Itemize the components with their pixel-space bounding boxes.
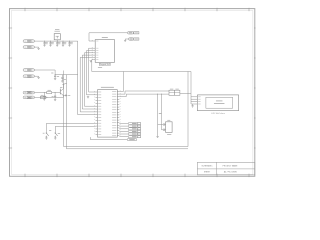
voltage regulator U1 xyxy=(54,29,60,41)
flag F1 xyxy=(119,122,140,124)
svg-text:SHEET: SHEET xyxy=(204,172,211,174)
keypad pins xyxy=(92,40,99,60)
flag F3 xyxy=(119,128,140,130)
crystal net verticals xyxy=(157,94,162,136)
svg-text:PROJECT NAME: PROJECT NAME xyxy=(223,164,239,167)
connector flag P1 VCC xyxy=(23,40,36,43)
ground for crystal xyxy=(156,135,158,137)
svg-text:SCHEMATIC: SCHEMATIC xyxy=(202,164,214,167)
wire keypad pin1 to flag G1 xyxy=(89,33,127,41)
svg-text:A4 / PIC DEMO: A4 / PIC DEMO xyxy=(224,171,238,174)
MCU U2 xyxy=(98,87,118,137)
connector flag P4 xyxy=(23,75,39,79)
resistor R2 xyxy=(40,95,63,99)
flag F4 xyxy=(119,130,140,132)
flag F7 xyxy=(90,137,136,141)
wire resistors to LCD net xyxy=(180,92,191,94)
capacitor C7 xyxy=(52,92,57,101)
routing loop wires xyxy=(64,67,192,149)
switch S1 xyxy=(43,123,96,139)
resistor R3 xyxy=(169,89,174,96)
power rail VCC xyxy=(36,41,77,115)
connector flag G1 xyxy=(127,32,139,34)
keypad to MCU bus wires xyxy=(78,48,96,115)
flag F5 xyxy=(119,133,140,135)
MCU left pins xyxy=(94,91,101,135)
connector flag P2 GND xyxy=(23,46,39,50)
connector flag P5 xyxy=(23,91,44,94)
resistor R4 xyxy=(174,89,180,96)
keypad label xyxy=(99,63,110,66)
VCC arrow for Q1 xyxy=(62,83,67,89)
MCU right pins xyxy=(112,91,121,137)
keypad connector J1 xyxy=(95,37,114,62)
gnd near MCU left xyxy=(87,96,89,98)
LCD pins xyxy=(191,96,201,104)
ground at LCD xyxy=(191,104,193,107)
output stub of Q1 xyxy=(63,95,70,97)
flag F2 xyxy=(119,125,140,127)
transistor Q1 xyxy=(60,87,63,97)
connector flag G2 with gnd arrow xyxy=(124,38,139,42)
capacitor C4 xyxy=(62,41,67,47)
connector flag P6 xyxy=(23,96,46,99)
wire to resistors xyxy=(119,91,169,97)
wire MCU pin1 up xyxy=(119,72,123,92)
capacitor C9 xyxy=(162,129,166,131)
connector flag P3 xyxy=(23,69,55,72)
svg-text:Keypad 4x4: Keypad 4x4 xyxy=(100,64,110,66)
capacitor C3 xyxy=(56,41,61,47)
title block xyxy=(197,162,254,175)
capacitor C6 xyxy=(43,92,48,100)
gnd arrow at keypad pin xyxy=(90,61,92,62)
svg-text:LCD 16x2 chars: LCD 16x2 chars xyxy=(211,112,225,115)
LCD module DS1 xyxy=(197,95,238,115)
node filter at P3 xyxy=(51,70,77,82)
switch S2 xyxy=(54,126,95,139)
crystal X1 xyxy=(166,120,173,135)
capacitor C2 xyxy=(49,41,54,47)
capacitor C8 xyxy=(158,123,166,125)
capacitor C1 xyxy=(43,41,48,47)
flag F6 xyxy=(119,136,140,138)
capacitor C5 xyxy=(68,41,73,47)
resistor R1 xyxy=(44,90,60,94)
